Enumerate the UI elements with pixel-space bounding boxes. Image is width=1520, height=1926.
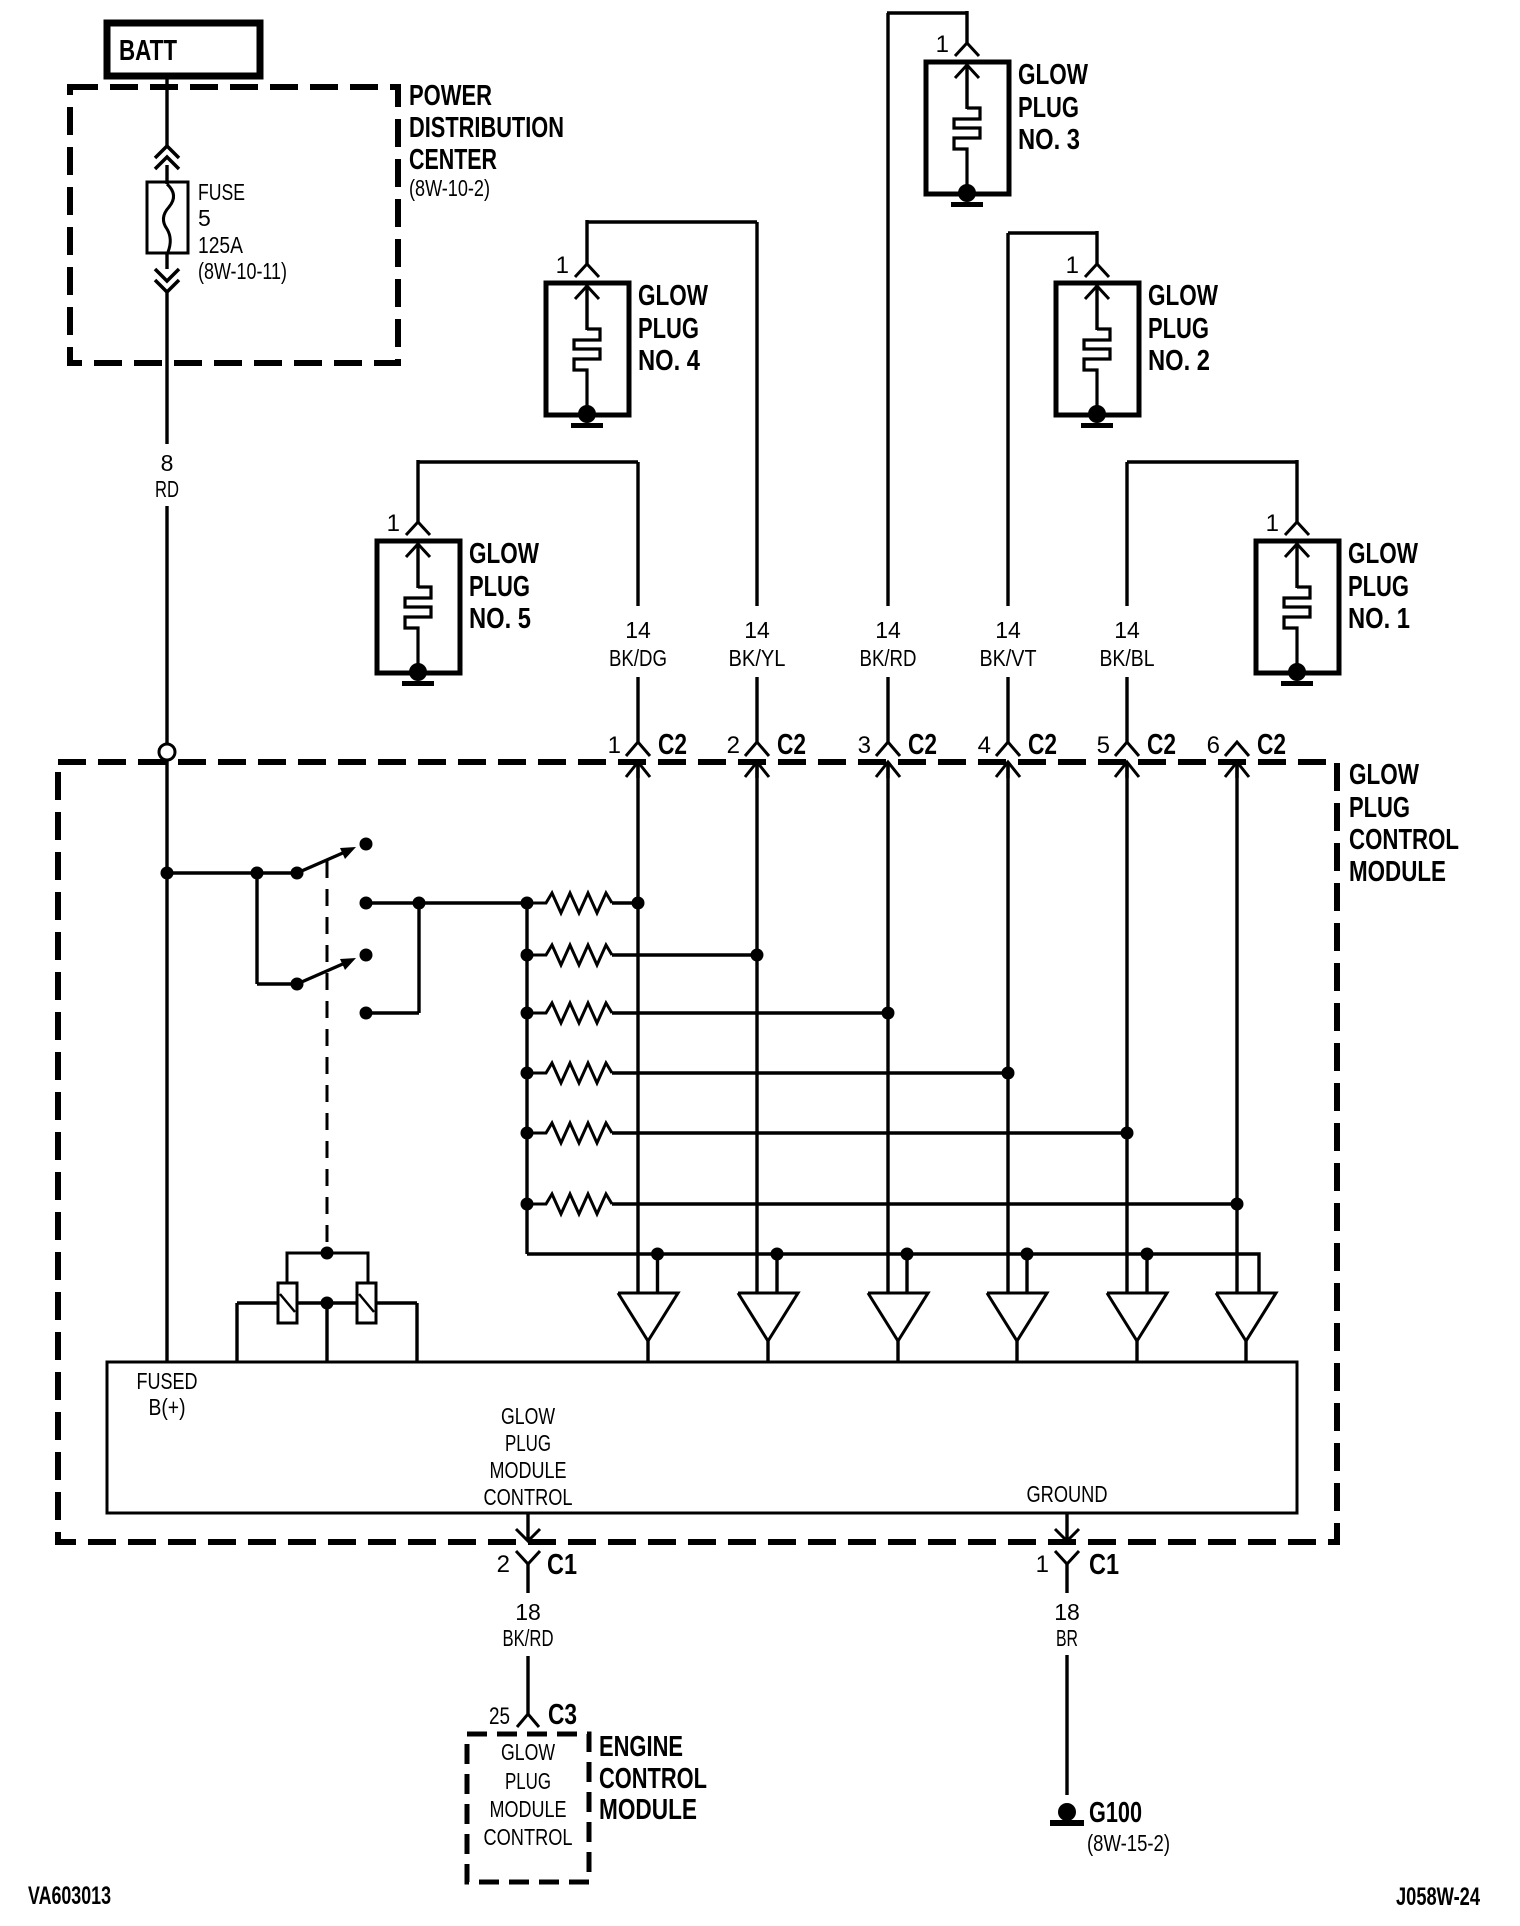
svg-text:1: 1 (936, 31, 949, 58)
wire C2 pin 3 into module to driver 3 (886, 762, 889, 1293)
wire glow plug no.5 pigtail down (416, 460, 419, 522)
svg-text:14: 14 (744, 617, 770, 643)
connector C2 pin 6 number (1207, 732, 1220, 759)
svg-text:MODULE: MODULE (1349, 856, 1446, 888)
label GLOW PLUG NO. 3 (1018, 59, 1088, 156)
wire glow plug no.1 pigtail down (1295, 460, 1298, 522)
svg-text:GLOW: GLOW (638, 280, 708, 312)
connector C1 pin 1 socket (1055, 1551, 1079, 1577)
svg-text:GLOW: GLOW (469, 538, 539, 570)
svg-text:BK/VT: BK/VT (980, 645, 1037, 671)
glow plug no. 4 pin 1 label (556, 252, 569, 279)
glow plug no. 3 connector halves at pin 1 (955, 43, 979, 78)
wire 14 BK/VT lower segment to connector C2 pin 4 (1006, 677, 1009, 743)
svg-text:G100: G100 (1089, 1797, 1142, 1829)
junction ladder rail row 5 (521, 1127, 534, 1140)
glow plug no. 5 internal ground (402, 663, 434, 686)
wire driver U2 output to control block (766, 1341, 769, 1362)
svg-text:CONTROL: CONTROL (1349, 824, 1459, 856)
glow plug no. 5 body (377, 541, 460, 673)
junction switch branch (251, 867, 264, 880)
junction resistor R3 to C2 pin 3 wire (882, 1007, 895, 1020)
junction enable bus tap 4 (1021, 1248, 1034, 1261)
resistor R3 (527, 1003, 612, 1023)
svg-text:PLUG: PLUG (505, 1430, 551, 1456)
connector C2 pin 4 number (978, 732, 991, 759)
svg-text:PLUG: PLUG (638, 313, 699, 345)
wire 14 BK/DG lower segment to connector C2 pin 1 (636, 677, 639, 743)
driver buffer U2 (triangle) (738, 1293, 798, 1341)
svg-text:RD: RD (155, 476, 179, 502)
resistor ladder feed rail (525, 903, 528, 1254)
label ENGINE CONTROL MODULE (599, 1731, 707, 1826)
fuse 5 125A (147, 182, 188, 253)
relay coil feed bracket (287, 1253, 368, 1283)
wire relay common center leg (325, 1303, 328, 1362)
wire resistor R2 output to sense line (612, 953, 757, 956)
junction enable bus tap 1 (651, 1248, 664, 1261)
svg-text:(8W-10-2): (8W-10-2) (409, 175, 490, 201)
glow plug no. 3 body (926, 62, 1009, 194)
svg-text:BR: BR (1056, 1625, 1078, 1651)
node switch output A (360, 897, 373, 910)
junction ladder rail row 6 (521, 1198, 534, 1211)
svg-text:BK/RD: BK/RD (860, 645, 917, 671)
switch S1 pivot (291, 867, 304, 880)
wire glow plug no.4 feed: top horizontal (587, 220, 757, 223)
engine control module dashed box (467, 1734, 589, 1882)
wire C2 pin 1 into module to driver 1 (636, 762, 639, 1293)
wire 14 BK/VT upper segment (to glow plug) (1006, 233, 1009, 606)
wire relay common left leg (235, 1303, 238, 1362)
svg-text:14: 14 (1114, 617, 1140, 643)
svg-text:POWER: POWER (409, 80, 492, 112)
svg-text:MODULE: MODULE (599, 1794, 697, 1826)
connector C3 label (548, 1699, 577, 1731)
glow plug control module dashed box (58, 762, 1337, 1542)
wire chevron to fuse (165, 165, 168, 184)
wire driver U6 output to control block (1244, 1341, 1247, 1362)
label GLOW PLUG NO. 2 (1148, 280, 1218, 377)
svg-text:5: 5 (198, 205, 211, 231)
svg-text:BATT: BATT (119, 35, 177, 67)
wire junction down to lower contact (417, 903, 420, 1013)
svg-text:BK/DG: BK/DG (609, 645, 667, 671)
wire driver U5 output to control block (1135, 1341, 1138, 1362)
switch S2 pivot (291, 978, 304, 991)
svg-text:NO. 1: NO. 1 (1348, 603, 1410, 635)
svg-text:CONTROL: CONTROL (484, 1484, 573, 1510)
connector C2 pin 3 number (858, 732, 871, 759)
driver buffer U4 (triangle) (987, 1293, 1047, 1341)
svg-text:C2: C2 (658, 729, 687, 761)
glow plug no. 2 connector halves at pin 1 (1085, 264, 1109, 299)
svg-text:FUSE: FUSE (198, 179, 245, 205)
glow plug no. 4 internal ground (571, 405, 603, 428)
svg-text:125A: 125A (198, 232, 244, 258)
svg-text:CONTROL: CONTROL (599, 1763, 707, 1795)
junction resistor R5 to C2 pin 5 wire (1121, 1127, 1134, 1140)
label GLOW PLUG MODULE CONTROL inside ECM (484, 1739, 573, 1850)
glow plug no. 4 body (546, 283, 629, 415)
wire resistor R5 output to sense line (612, 1131, 1127, 1134)
glow plug no. 1 connector halves at pin 1 (1285, 522, 1309, 557)
glow plug no. 2 body (1056, 283, 1139, 415)
connector C2 pin 1 halves (626, 742, 650, 778)
wire enable stub to driver 5 (1145, 1254, 1148, 1293)
svg-text:NO. 3: NO. 3 (1018, 124, 1080, 156)
svg-text:C2: C2 (1147, 729, 1176, 761)
svg-text:1: 1 (387, 510, 400, 537)
svg-text:C2: C2 (1028, 729, 1057, 761)
junction ladder rail row 3 (521, 1007, 534, 1020)
glow plug no. 4 connector halves at pin 1 (575, 264, 599, 299)
relay coil K2 (357, 1283, 376, 1323)
wire 18 BR lower segment to ground (1065, 1655, 1068, 1795)
wire ground output with arrow to C1 pin 1 (1055, 1513, 1079, 1541)
connector C1 pin 2 number (497, 1551, 510, 1578)
svg-text:CONTROL: CONTROL (484, 1824, 573, 1850)
svg-text:6: 6 (1207, 732, 1220, 759)
switch S1 blade with arrow (297, 847, 356, 873)
connector C2 pin 5 number (1097, 732, 1110, 759)
node terminal circle at module boundary (159, 744, 175, 760)
wire battery feed from BATT into PDC (165, 76, 168, 146)
relay coil K1 (278, 1283, 297, 1323)
junction on switch output wire (413, 897, 426, 910)
connector C2 label at pin 2 (777, 729, 806, 761)
svg-text:5: 5 (1097, 732, 1110, 759)
switch S2 blade with arrow (297, 958, 356, 984)
connector C2 pin 4 halves (996, 742, 1020, 778)
junction enable bus tap 2 (771, 1248, 784, 1261)
power distribution center dashed box (70, 87, 398, 363)
wire relay common right leg (415, 1303, 418, 1362)
wire fuse to chevrons (165, 253, 168, 269)
wire 18 BK/RD lower segment to C3 pin 25 (526, 1656, 529, 1714)
inline connector arrows up (wire continuation) (155, 146, 179, 169)
wire 14 BK/BL lower segment to connector C2 pin 5 (1125, 677, 1128, 743)
wire C2 pin 6 into module to driver 6 (1235, 762, 1238, 1293)
label wire 14 BK/BL (1100, 617, 1155, 671)
svg-text:PLUG: PLUG (1348, 571, 1409, 603)
wire 18 BR upper segment (1065, 1577, 1068, 1593)
connector C3 pin 25 halves (517, 1714, 539, 1727)
svg-text:J058W-24: J058W-24 (1396, 1883, 1480, 1911)
wire glow plug no.2 pigtail down (1095, 231, 1098, 264)
junction resistor R2 to C2 pin 2 wire (751, 949, 764, 962)
junction enable bus tap 5 (1141, 1248, 1154, 1261)
svg-text:NO. 5: NO. 5 (469, 603, 531, 635)
svg-text:1: 1 (1266, 510, 1279, 537)
connector C2 label at pin 1 (658, 729, 687, 761)
label FUSED B(+) (137, 1368, 198, 1420)
wire enable stub to driver 4 (1025, 1254, 1028, 1293)
svg-text:C1: C1 (547, 1549, 577, 1581)
connector C2 pin 6 halves (1225, 742, 1249, 778)
switch S2 contact (360, 949, 373, 962)
wire to switch S2 pivot (257, 982, 297, 985)
label GLOW PLUG CONTROL MODULE (1349, 759, 1459, 888)
svg-text:MODULE: MODULE (490, 1796, 567, 1822)
wire glow plug no.2 feed: top horizontal (1008, 231, 1097, 234)
wire glow plug no.4 pigtail down (585, 220, 588, 264)
wire resistor R3 output to sense line (612, 1011, 888, 1014)
node lower contact B (360, 1007, 373, 1020)
connector C2 label at pin 3 (908, 729, 937, 761)
module internal control block box (107, 1362, 1297, 1513)
wire resistor R4 output to sense line (612, 1071, 1008, 1074)
resistor R2 (527, 945, 612, 965)
wire C2 pin 4 into module to driver 4 (1006, 762, 1009, 1293)
glow plug no. 2 pin 1 label (1066, 252, 1079, 279)
svg-text:PLUG: PLUG (469, 571, 530, 603)
svg-text:C2: C2 (1257, 729, 1286, 761)
label GLOW PLUG NO. 1 (1348, 538, 1418, 635)
wire driver U1 output to control block (646, 1341, 649, 1362)
battery B+ feed box BATT (107, 23, 260, 76)
svg-text:BK/YL: BK/YL (729, 645, 786, 671)
connector C2 label at pin 4 (1028, 729, 1057, 761)
svg-text:GLOW: GLOW (501, 1403, 555, 1429)
svg-text:25: 25 (489, 1703, 510, 1730)
connector C2 pin 2 halves (745, 742, 769, 778)
svg-text:(8W-15-2): (8W-15-2) (1087, 1830, 1170, 1856)
svg-text:(8W-10-11): (8W-10-11) (198, 258, 287, 284)
wire enable stub to driver 2 (775, 1254, 778, 1293)
driver buffer U6 (triangle) (1216, 1293, 1276, 1341)
label GROUND (block function) (1027, 1481, 1108, 1507)
connector C1 label (pin 2) (547, 1549, 577, 1581)
connector C2 pin 5 halves (1115, 742, 1139, 778)
wire glow plug no.1 feed: top horizontal (1127, 460, 1297, 463)
svg-text:PLUG: PLUG (1148, 313, 1209, 345)
sheet number J058W-24 (1396, 1883, 1480, 1911)
svg-text:PLUG: PLUG (1349, 792, 1410, 824)
svg-text:1: 1 (1066, 252, 1079, 279)
svg-text:NO. 2: NO. 2 (1148, 345, 1210, 377)
svg-text:GLOW: GLOW (1018, 59, 1088, 91)
svg-text:PLUG: PLUG (505, 1768, 551, 1794)
ground G100 symbol (1050, 1803, 1084, 1826)
svg-text:1: 1 (1036, 1551, 1049, 1578)
glow plug no. 1 pin 1 label (1266, 510, 1279, 537)
connector C1 pin 1 number (1036, 1551, 1049, 1578)
wire resistor R6 output to sense line (612, 1202, 1237, 1205)
svg-text:3: 3 (858, 732, 871, 759)
wire 14 BK/BL upper segment (to glow plug) (1125, 462, 1128, 606)
wire glow plug no.5 feed: top horizontal (418, 460, 638, 463)
wire 14 BK/YL lower segment to connector C2 pin 2 (755, 677, 758, 743)
wire driver enable bus (527, 1254, 1259, 1293)
wire glow plug no.3 pigtail down (965, 11, 968, 43)
wire C2 pin 5 into module to driver 5 (1125, 762, 1128, 1293)
junction ladder rail row 4 (521, 1067, 534, 1080)
glow plug no. 5 connector halves at pin 1 (406, 522, 430, 557)
resistor R4 (527, 1063, 612, 1083)
wire switch feed horizontal (167, 871, 297, 874)
wire switch output to resistor ladder rail (366, 901, 527, 904)
connector C1 pin 2 socket (516, 1551, 540, 1577)
svg-text:18: 18 (515, 1599, 541, 1625)
wire lower contact horizontal (366, 1011, 419, 1014)
label G100 (8W-15-2) (1087, 1797, 1170, 1856)
connector C2 pin 1 number (608, 732, 621, 759)
wire resistor R1 output to sense line (612, 901, 638, 904)
svg-text:BK/BL: BK/BL (1100, 645, 1155, 671)
mechanical linkage dashed line to relay coils (326, 861, 329, 1253)
junction fused B+ to switch feed (161, 867, 174, 880)
svg-text:8: 8 (161, 450, 174, 476)
glow plug no. 1 internal ground (1281, 663, 1313, 686)
svg-text:2: 2 (497, 1551, 510, 1578)
svg-text:BK/RD: BK/RD (503, 1625, 554, 1651)
svg-text:18: 18 (1054, 1599, 1080, 1625)
wire fuse output leaving PDC, circuit 8 RD (165, 292, 168, 444)
switch S1 contact (360, 838, 373, 851)
wire 18 BK/RD upper segment (526, 1577, 529, 1593)
svg-text:4: 4 (978, 732, 991, 759)
connector C2 label at pin 6 (1257, 729, 1286, 761)
svg-text:14: 14 (995, 617, 1021, 643)
svg-text:C2: C2 (777, 729, 806, 761)
label wire 14 BK/RD (860, 617, 917, 671)
wire 14 BK/YL upper segment (to glow plug) (755, 222, 758, 606)
svg-text:GLOW: GLOW (1349, 759, 1419, 791)
svg-text:NO. 4: NO. 4 (638, 345, 700, 377)
glow plug no. 2 internal ground (1081, 405, 1113, 428)
glow plug no. 1 body (1256, 541, 1339, 673)
label wire 14 BK/VT (980, 617, 1037, 671)
label GLOW PLUG NO. 5 (469, 538, 539, 635)
wire driver U3 output to control block (896, 1341, 899, 1362)
svg-text:14: 14 (875, 617, 901, 643)
svg-text:14: 14 (625, 617, 651, 643)
resistor R1 (527, 893, 612, 913)
svg-text:C1: C1 (1089, 1549, 1119, 1581)
svg-text:B(+): B(+) (149, 1394, 186, 1420)
label wire 18 BR (1054, 1599, 1080, 1651)
glow plug no. 3 internal ground (951, 184, 983, 207)
resistor R5 (527, 1123, 612, 1143)
junction resistor R1 to C2 pin 1 wire (632, 897, 645, 910)
wire relay common horizontal (237, 1301, 417, 1304)
wire 14 BK/RD upper segment (to glow plug) (886, 13, 889, 606)
driver buffer U3 (triangle) (868, 1293, 928, 1341)
svg-text:CENTER: CENTER (409, 144, 497, 176)
junction enable bus tap 3 (901, 1248, 914, 1261)
connector C2 label at pin 5 (1147, 729, 1176, 761)
label GLOW PLUG NO. 4 (638, 280, 708, 377)
svg-text:1: 1 (556, 252, 569, 279)
connector C1 label (pin 1) (1089, 1549, 1119, 1581)
svg-text:C3: C3 (548, 1699, 577, 1731)
junction ladder rail row 2 (521, 949, 534, 962)
wire enable stub to driver 1 (656, 1254, 659, 1293)
wire enable stub to driver 3 (905, 1254, 908, 1293)
connector C3 pin 25 number (489, 1703, 510, 1730)
svg-text:DISTRIBUTION: DISTRIBUTION (409, 112, 564, 144)
svg-text:GLOW: GLOW (501, 1739, 555, 1765)
junction resistor R6 to C2 pin 6 wire (1231, 1198, 1244, 1211)
wire glow plug no.3 feed: top horizontal (887, 11, 967, 14)
junction resistor R4 to C2 pin 4 wire (1002, 1067, 1015, 1080)
glow plug no. 3 pin 1 label (936, 31, 949, 58)
wire C2 pin 2 into module to driver 2 (755, 762, 758, 1293)
label wire 14 BK/YL (729, 617, 786, 671)
svg-text:PLUG: PLUG (1018, 92, 1079, 124)
svg-text:VA603013: VA603013 (28, 1882, 111, 1910)
svg-text:FUSED: FUSED (137, 1368, 198, 1394)
wire 14 BK/RD lower segment to connector C2 pin 3 (886, 677, 889, 743)
wire control output with arrow to C1 pin 2 (516, 1513, 540, 1541)
svg-text:GROUND: GROUND (1027, 1481, 1108, 1507)
label FUSE 5 125A (8W-10-11) (198, 179, 287, 284)
inline connector arrows down (wire continuation) (155, 269, 179, 292)
svg-text:C2: C2 (908, 729, 937, 761)
junction linkage to relay coil bracket (321, 1247, 334, 1260)
driver buffer U5 (triangle) (1107, 1293, 1167, 1341)
svg-text:GLOW: GLOW (1148, 280, 1218, 312)
label wire 14 BK/DG (609, 617, 667, 671)
svg-text:ENGINE: ENGINE (599, 1731, 683, 1763)
glow plug no. 5 pin 1 label (387, 510, 400, 537)
junction relay common center (321, 1297, 334, 1310)
svg-text:GLOW: GLOW (1348, 538, 1418, 570)
junction ladder rail row 1 (521, 897, 534, 910)
wire 14 BK/DG upper segment (to glow plug) (636, 462, 639, 606)
driver buffer U1 (triangle) (618, 1293, 678, 1341)
label GLOW PLUG MODULE CONTROL (block function) (484, 1403, 573, 1510)
label wire 18 BK/RD (503, 1599, 554, 1651)
label POWER DISTRIBUTION CENTER (8W-10-2) (409, 80, 564, 201)
drawing number VA603013 (28, 1882, 111, 1910)
resistor R6 (527, 1194, 612, 1214)
wire 8 RD down to module node (165, 506, 168, 744)
connector C2 pin 3 halves (876, 742, 900, 778)
wire fused B+ inside module down to control block (165, 760, 168, 1362)
wire driver U4 output to control block (1015, 1341, 1018, 1362)
connector C2 pin 2 number (727, 732, 740, 759)
svg-text:MODULE: MODULE (490, 1457, 567, 1483)
wire branch down to switch S2 (255, 873, 258, 984)
label wire gauge 8 RD (155, 450, 179, 502)
svg-text:2: 2 (727, 732, 740, 759)
svg-text:1: 1 (608, 732, 621, 759)
